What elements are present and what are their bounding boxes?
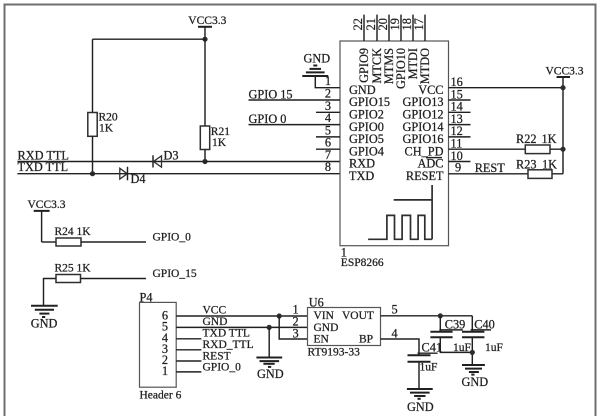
wire P4 pin1 — [176, 371, 201, 373]
ground C41 — [407, 389, 434, 414]
svg-text:3: 3 — [293, 327, 299, 341]
svg-text:GPIO_15: GPIO_15 — [153, 268, 197, 280]
svg-text:P4: P4 — [140, 291, 153, 305]
wire RXD — [17, 161, 340, 163]
svg-text:5: 5 — [392, 303, 398, 317]
wire pin1 — [315, 76, 340, 88]
capacitor C41 — [408, 341, 443, 374]
wire to mid ground — [268, 327, 270, 357]
svg-text:REST: REST — [475, 161, 506, 175]
svg-text:R22: R22 — [516, 132, 537, 146]
svg-text:GND: GND — [31, 317, 58, 331]
svg-text:VCC3.3: VCC3.3 — [188, 15, 226, 27]
node junction VOUT/C39 — [438, 313, 443, 318]
wire pin14 — [449, 111, 471, 113]
svg-text:1K: 1K — [542, 132, 557, 146]
wire pin11 CH_PD — [449, 148, 564, 150]
wire — [81, 278, 147, 280]
svg-text:GND: GND — [257, 367, 284, 381]
svg-text:R24 1K: R24 1K — [55, 226, 92, 238]
resistor R21 — [200, 126, 230, 150]
wire P4 pin6 / U6 pin1 VCC — [176, 315, 307, 317]
wire P4 pin3 — [176, 349, 201, 351]
ground left — [31, 306, 58, 331]
wire pin13 — [449, 124, 471, 126]
wire — [92, 39, 94, 112]
svg-text:17: 17 — [412, 18, 426, 30]
svg-text:GPIO_0: GPIO_0 — [153, 232, 192, 244]
svg-text:C41: C41 — [422, 341, 443, 355]
svg-text:9: 9 — [455, 161, 461, 175]
power VCC3.3 right — [546, 66, 584, 174]
node junction VCC/EN — [277, 313, 282, 318]
svg-text:REST: REST — [203, 350, 231, 362]
ground mid — [256, 358, 283, 381]
svg-text:VCC3.3: VCC3.3 — [28, 199, 66, 211]
svg-text:1uF: 1uF — [420, 362, 438, 374]
diode D3 — [153, 149, 179, 168]
wire VOUT pin5 — [381, 315, 473, 317]
rotated pin names GPIO9 MTCK MTMS GPIO10 MTDI MTDO — [357, 48, 432, 89]
node junction R21/RXD — [202, 159, 207, 164]
svg-text:1K: 1K — [212, 137, 227, 149]
svg-text:TXD TTL: TXD TTL — [203, 328, 250, 340]
wire EN from VCC — [279, 316, 307, 339]
node junction VCC/pin16 — [560, 85, 565, 90]
svg-text:TXD: TXD — [349, 169, 374, 183]
svg-text:R25 1K: R25 1K — [55, 263, 92, 275]
regulator U6 box — [308, 308, 381, 346]
wire — [42, 241, 56, 243]
svg-text:EN: EN — [314, 334, 330, 346]
svg-text:RESET: RESET — [406, 169, 444, 183]
wire P4 pin4 — [176, 338, 201, 340]
resistor R23 — [516, 158, 557, 179]
svg-text:1K: 1K — [99, 123, 114, 135]
svg-text:VCC3.3: VCC3.3 — [546, 66, 584, 78]
svg-text:D4: D4 — [131, 172, 146, 186]
U6 pin names — [314, 310, 374, 346]
wire pin9 RESET — [449, 173, 564, 175]
svg-text:GND: GND — [407, 400, 434, 414]
wire — [44, 279, 57, 306]
wire pin6 — [316, 148, 340, 150]
wire pin15 — [449, 99, 471, 101]
node junction top-left — [202, 37, 207, 42]
wire pin5 — [316, 136, 340, 138]
svg-text:8: 8 — [325, 160, 331, 174]
svg-text:4: 4 — [392, 326, 398, 340]
svg-text:GND: GND — [314, 322, 339, 334]
wire TXD — [17, 173, 340, 175]
svg-text:ESP8266: ESP8266 — [341, 257, 384, 269]
header P4 box — [140, 302, 177, 387]
resistor R20 — [88, 112, 118, 137]
svg-text:VOUT: VOUT — [342, 310, 374, 322]
svg-text:VIN: VIN — [314, 310, 335, 322]
svg-text:Header 6: Header 6 — [140, 390, 182, 402]
wire P4 pin5 / U6 pin2 GND — [176, 326, 307, 328]
svg-text:TXD TTL: TXD TTL — [18, 160, 69, 174]
wire — [204, 39, 206, 126]
P4 pin numbers — [162, 308, 168, 378]
top pin wires 22..17 — [364, 15, 425, 41]
pin numbers 22..17 (rotated) — [351, 18, 426, 30]
U6 pin numbers — [293, 303, 398, 341]
wire pin3 — [316, 111, 340, 113]
node junction GND — [267, 325, 272, 330]
wire — [440, 337, 472, 352]
ground GND top (inverted) — [302, 52, 330, 77]
svg-text:RT9193-33: RT9193-33 — [308, 347, 361, 359]
wire pin10 — [449, 161, 471, 163]
wire pin12 — [449, 136, 471, 138]
resistor R25 — [55, 263, 92, 283]
chip right pin names — [403, 83, 444, 183]
wire pin16 VCC — [449, 87, 564, 89]
ESP8266 chip box U? — [340, 41, 449, 246]
node junction R20/TXD — [90, 171, 95, 176]
capacitor C40 — [462, 316, 503, 354]
wire — [204, 150, 206, 162]
svg-text:GND: GND — [304, 52, 331, 66]
diode D4 — [120, 167, 146, 186]
resistor R22 — [516, 132, 557, 154]
chip left pin names — [349, 83, 390, 183]
wire — [92, 136, 94, 173]
svg-text:MTDO: MTDO — [418, 48, 432, 84]
ground C40 — [462, 365, 489, 389]
wire — [93, 38, 206, 40]
svg-text:D3: D3 — [164, 149, 179, 163]
wire — [81, 241, 146, 243]
wire BP pin4 — [381, 339, 420, 355]
wire — [418, 362, 420, 389]
power VCC3.3 top-left — [188, 15, 226, 39]
wire — [471, 337, 473, 364]
svg-text:GND: GND — [462, 375, 489, 389]
resistor R24 — [55, 226, 92, 246]
capacitor C39 — [430, 316, 471, 354]
svg-text:GND: GND — [203, 316, 228, 328]
svg-text:BP: BP — [359, 334, 373, 346]
svg-text:GPIO_0: GPIO_0 — [203, 362, 242, 374]
svg-text:1uF: 1uF — [485, 342, 503, 354]
svg-text:U6: U6 — [309, 296, 324, 310]
node junction C39/C40 — [470, 350, 475, 355]
antenna meander (ESP8266) — [368, 185, 432, 239]
svg-text:GPIO9: GPIO9 — [357, 48, 371, 83]
svg-text:RXD_TTL: RXD_TTL — [203, 339, 254, 351]
svg-text:22: 22 — [351, 18, 365, 30]
wire pin4 — [249, 124, 341, 126]
svg-text:1: 1 — [162, 364, 168, 378]
svg-text:VCC: VCC — [203, 305, 227, 317]
node junction VCC/R22 — [560, 147, 565, 152]
power VCC3.3 mid-left — [28, 199, 66, 242]
wire pin2 — [249, 99, 341, 101]
wire P4 pin2 — [176, 360, 201, 362]
